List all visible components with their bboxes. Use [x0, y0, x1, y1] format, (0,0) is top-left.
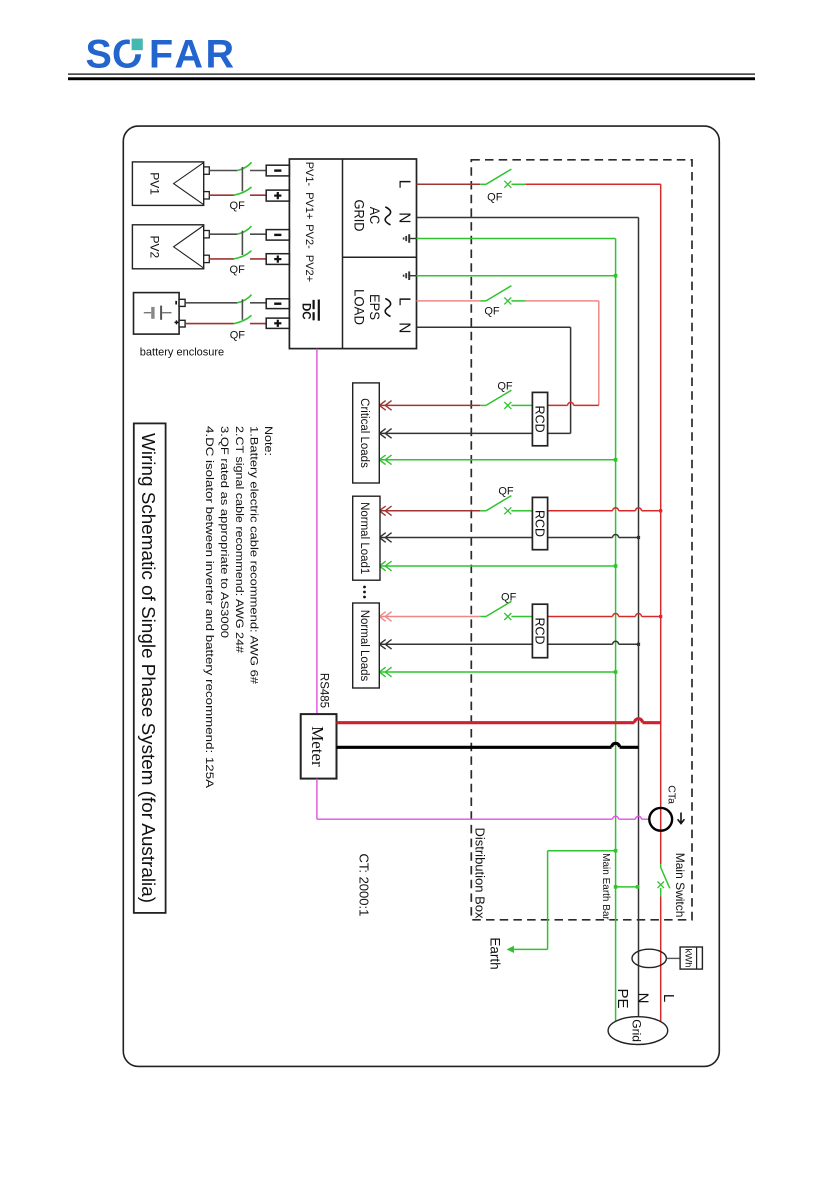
title box — [134, 423, 166, 913]
wire RS485 inverter to meter — [316, 349, 318, 714]
junction normal2 L — [659, 615, 662, 618]
arrow critical PE — [379, 455, 385, 465]
wire PV2+ to QF — [209, 258, 234, 260]
load box Normal Load1 — [353, 496, 380, 580]
QF1 lower blade — [234, 187, 266, 195]
arrow critical N — [379, 429, 385, 439]
wire QF to RCD2 — [526, 510, 533, 512]
svg-text:QF: QF — [230, 329, 246, 341]
wire N vertical — [638, 218, 640, 1017]
wire critical PE — [379, 459, 615, 461]
svg-text:N: N — [635, 993, 652, 1004]
wire QF to RCD3 — [526, 616, 533, 618]
wire meter N thick — [337, 746, 612, 749]
wire critical N — [379, 432, 570, 434]
junction normal2 PE — [614, 670, 618, 674]
breaker QF2 (PV2) — [237, 226, 266, 255]
breaker QF grid L — [480, 183, 486, 185]
svg-text:battery enclosure: battery enclosure — [140, 347, 224, 359]
svg-text:2.CT signal cable recommend: A: 2.CT signal cable recommend: AWG 24# — [233, 426, 245, 654]
current transformer CTa — [649, 785, 684, 830]
arrow normal1 PE — [379, 561, 385, 571]
arrow normal2 N — [379, 640, 385, 650]
svg-text:kWh: kWh — [682, 949, 693, 968]
breaker QF normal2 — [480, 616, 486, 618]
RCD U2 (critical) — [532, 392, 547, 445]
SOFAR logo — [86, 33, 235, 77]
svg-text:Critical Loads: Critical Loads — [358, 398, 370, 468]
svg-text:Grid: Grid — [630, 1019, 644, 1042]
wire eps L to QF — [417, 300, 481, 302]
svg-text:PV2- PV2+: PV2- PV2+ — [303, 224, 315, 282]
outer figure border — [123, 126, 719, 1066]
svg-text:F: F — [149, 33, 173, 77]
distribution box dashed outline — [471, 160, 692, 920]
kWh meter — [632, 947, 702, 969]
junction normal1 L — [659, 509, 662, 512]
svg-text:Earth: Earth — [487, 937, 502, 969]
svg-text:QF: QF — [230, 264, 246, 276]
arrow normal2 PE — [379, 667, 385, 677]
svg-text:Meter: Meter — [308, 726, 327, 767]
svg-text:CTa: CTa — [665, 785, 677, 804]
label EPS LOAD — [351, 289, 390, 325]
wire grid L QF to corner — [526, 183, 661, 185]
wire grid PE horizontal — [417, 238, 616, 240]
svg-text:Normal Loads: Normal Loads — [358, 610, 370, 682]
svg-text:QF: QF — [498, 486, 514, 498]
wire normal2 L — [379, 616, 480, 618]
svg-text:DC: DC — [299, 303, 311, 320]
wire L vertical lower — [660, 897, 662, 1022]
wire meter L thick — [337, 721, 635, 724]
arrow normal1 N — [379, 533, 385, 543]
svg-text:PV2: PV2 — [148, 235, 162, 258]
svg-text:L: L — [395, 180, 412, 189]
svg-text:1.Battery electric cable recom: 1.Battery electric cable recommend: AWG … — [248, 426, 260, 685]
svg-text:QF: QF — [230, 200, 246, 212]
wire grid L to QF — [417, 183, 481, 185]
QF3 lower blade — [234, 315, 266, 323]
svg-text:R: R — [206, 33, 235, 77]
junction eps PE — [614, 274, 618, 278]
breaker QF eps L — [480, 300, 486, 302]
wire eps L QF to corner — [526, 300, 599, 302]
wire eps PE horizontal — [417, 275, 616, 277]
svg-text:RCD: RCD — [533, 406, 547, 433]
wire eps N vertical — [570, 327, 572, 433]
svg-text:AC: AC — [367, 207, 383, 225]
svg-text:A: A — [175, 33, 204, 77]
DC symbol — [299, 300, 319, 321]
ground terminal (grid) — [410, 238, 417, 240]
svg-text:EPS: EPS — [367, 294, 383, 320]
wire normal2 PE — [379, 671, 615, 673]
wire PE vertical — [615, 239, 617, 1022]
PV panel PV1 — [132, 162, 209, 206]
svg-text:3.QF rated as appropriate to A: 3.QF rated as appropriate to AS3000 — [218, 426, 230, 638]
svg-text:S: S — [86, 33, 112, 77]
terminal box PV2+ plus — [266, 254, 289, 265]
svg-text:PV1- PV1+: PV1- PV1+ — [303, 162, 315, 220]
battery enclosure box — [134, 293, 186, 335]
arrow normal1 L — [379, 506, 385, 516]
svg-text:GRID: GRID — [351, 200, 367, 232]
utility grid — [608, 1017, 668, 1045]
wire critical L — [379, 404, 480, 406]
label AC GRID — [351, 200, 390, 232]
junction critical PE — [614, 458, 618, 462]
svg-text:4.DC isolator between inverter: 4.DC isolator between inverter and batte… — [203, 426, 215, 789]
svg-text:CT: 2000:1: CT: 2000:1 — [357, 853, 372, 916]
terminal box PV2- minus — [266, 230, 289, 241]
wire QF to RCD1 — [526, 404, 533, 406]
earth wire — [507, 849, 618, 953]
PV panel PV2 — [132, 225, 209, 269]
wire L vertical upper — [660, 184, 662, 864]
terminal box PV1+ plus — [266, 190, 289, 201]
wire RCD1 to eps L corner — [547, 404, 568, 406]
breaker QF1 (PV1) — [237, 162, 266, 191]
wire PV1- to QF — [209, 170, 237, 172]
wire normal1 N — [379, 537, 612, 539]
svg-text:RCD: RCD — [533, 510, 547, 537]
RCD U4 (normal2) — [532, 604, 547, 658]
junction normal1 N — [637, 536, 640, 539]
terminal box BAT+ plus — [266, 318, 289, 328]
load box Critical Loads — [353, 383, 380, 483]
earth-neutral link — [614, 885, 640, 889]
wire eps N horizontal — [417, 326, 571, 328]
wire normal2 N — [379, 643, 612, 645]
QF2 lower blade — [234, 251, 266, 259]
load box Normal Loads — [353, 603, 380, 688]
meter box — [301, 714, 337, 779]
svg-text:PV1: PV1 — [148, 172, 162, 195]
svg-text:Note:: Note: — [262, 426, 274, 456]
RCD U3 (normal1) — [532, 497, 547, 549]
wire PV1+ to QF — [209, 194, 234, 196]
svg-text:RS485: RS485 — [318, 673, 330, 708]
wire normal1 PE — [379, 565, 615, 567]
svg-text:Main Earth Bar: Main Earth Bar — [600, 853, 611, 920]
ellipsis dots — [363, 586, 366, 589]
arrow critical L — [379, 401, 385, 411]
wire PV2- to QF — [209, 233, 237, 235]
svg-text:L: L — [660, 994, 677, 1002]
svg-text:RCD: RCD — [533, 617, 547, 644]
junction normal1 PE — [614, 564, 618, 568]
svg-text:LOAD: LOAD — [351, 289, 367, 325]
breaker QF3 (battery) — [237, 295, 266, 320]
wire RCD2 to L bus — [547, 510, 613, 512]
arrow normal2 L — [379, 612, 385, 622]
breaker QF normal1 — [480, 510, 486, 512]
svg-text:Wiring Schematic of Single Pha: Wiring Schematic of Single Phase System … — [138, 433, 158, 903]
svg-text:QF: QF — [501, 591, 517, 603]
inverter box U1 — [289, 159, 416, 349]
svg-text:PE: PE — [614, 988, 631, 1008]
svg-text:N: N — [395, 212, 412, 223]
wire BAT- to QF — [185, 302, 237, 304]
terminal box PV1- minus — [266, 165, 289, 176]
wire grid N horizontal — [417, 217, 639, 219]
svg-text:N: N — [395, 322, 412, 333]
breaker QF critical — [480, 404, 486, 406]
svg-text:L: L — [395, 297, 412, 306]
svg-text:QF: QF — [487, 191, 503, 203]
double rule under logo — [68, 74, 755, 81]
svg-text:Normal Load1: Normal Load1 — [358, 502, 370, 574]
svg-text:Distribution Box: Distribution Box — [473, 827, 488, 919]
wire RCD3 to L bus — [547, 616, 613, 618]
wire eps L vertical — [598, 301, 600, 406]
svg-text:QF: QF — [484, 306, 500, 318]
main switch — [658, 864, 670, 896]
wire BAT+ to QF — [185, 323, 234, 325]
wire normal1 L — [379, 510, 480, 512]
svg-text:Main Switch: Main Switch — [673, 853, 687, 918]
junction normal2 N — [637, 643, 640, 646]
terminal box BAT- minus — [266, 299, 289, 309]
ground terminal (eps) — [410, 275, 417, 277]
wire RS485 meter to CT — [317, 779, 649, 820]
svg-text:QF: QF — [497, 380, 513, 392]
